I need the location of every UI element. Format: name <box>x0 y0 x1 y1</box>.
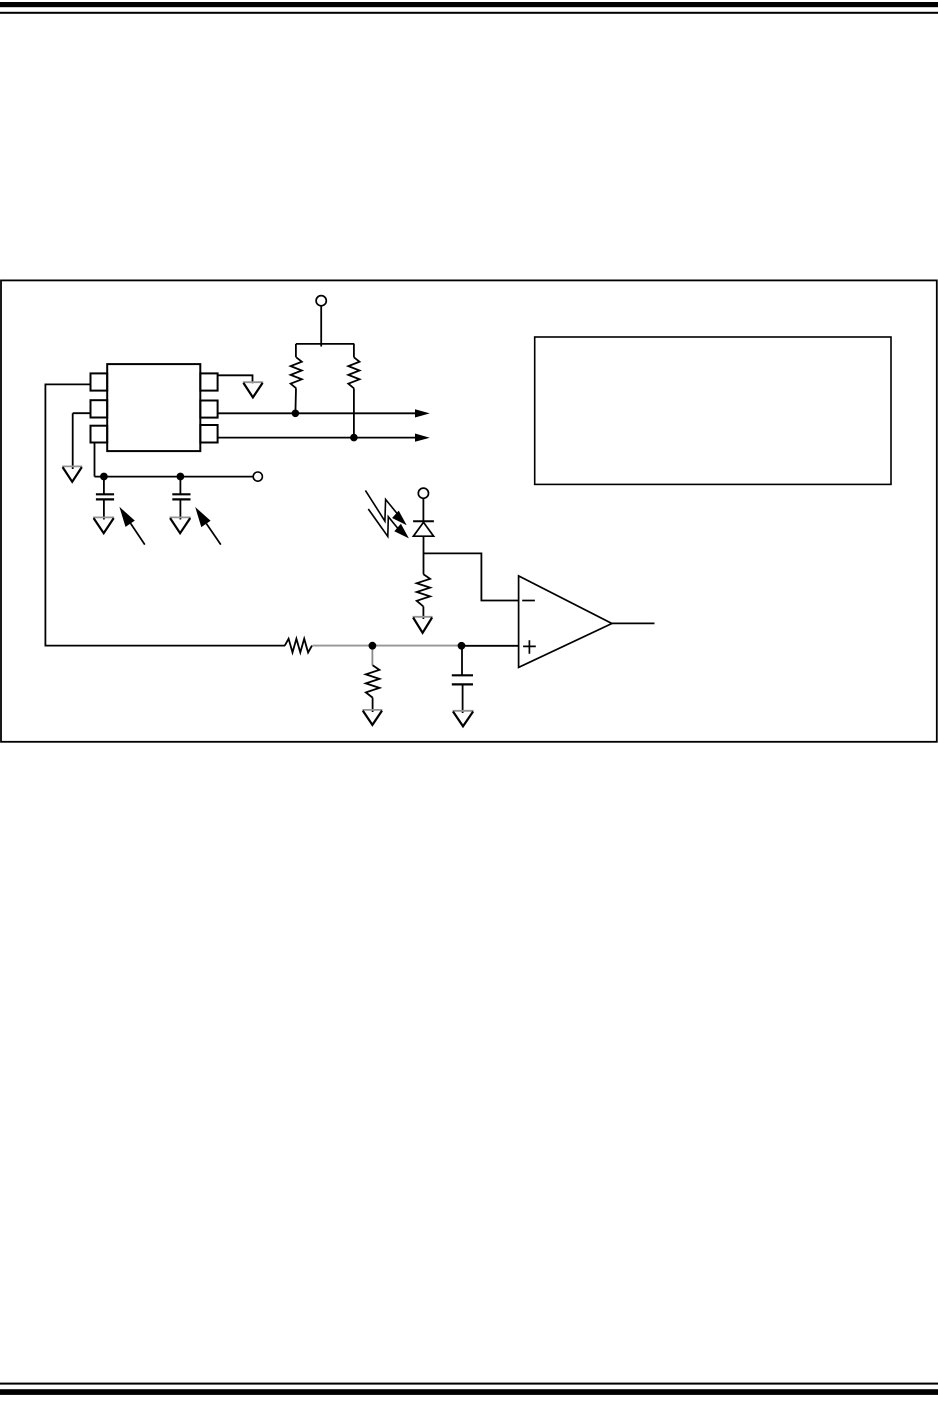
ground G4 <box>170 517 191 533</box>
node junction N1 <box>369 642 377 650</box>
wire decoupling rail <box>95 476 254 478</box>
resistor R3 (horizontal) <box>285 639 312 653</box>
annotation arrow A2 <box>195 507 221 545</box>
resistor R2 <box>348 344 359 438</box>
wire pin2 to ground <box>72 413 74 469</box>
IC U1 pin 5 (right middle) <box>200 401 217 418</box>
node junction N6 <box>350 434 358 442</box>
wire branch to op-amp minus <box>424 553 519 600</box>
ground G6 <box>362 710 382 725</box>
IC U1 pin 3 (left bottom) <box>91 426 108 443</box>
wire gray net segment <box>313 645 462 647</box>
light arrow bolt1 <box>365 490 406 525</box>
ground G3 <box>93 517 114 533</box>
annotation arrow A1 <box>119 507 144 545</box>
wire cap C3 bottom lead <box>462 684 464 713</box>
resistor R1 <box>291 344 302 413</box>
terminal T2 (open circle) <box>253 472 262 481</box>
wire cap C3 top lead <box>461 646 463 676</box>
wire resistor tops connector <box>296 343 354 345</box>
schematic frame <box>1 280 937 741</box>
resistor R4 <box>417 574 430 606</box>
resistor R5 (vertical) <box>366 665 380 697</box>
capacitor C2 <box>172 477 190 520</box>
terminal T3 (photodiode bias) <box>418 488 428 498</box>
wire left long vertical <box>44 384 46 646</box>
light arrow bolt2 <box>368 509 409 538</box>
wire bottom horizontal to R3 <box>45 645 286 647</box>
terminal T1 (open circle, top supply) <box>316 296 326 306</box>
ground G7 <box>453 711 474 727</box>
wire pin4 to ground <box>218 375 253 383</box>
wire photodiode anode down <box>423 536 425 574</box>
ground G5 <box>413 617 433 633</box>
IC U1 pin 1 (left top) <box>91 373 108 390</box>
wire T1 down <box>320 306 322 347</box>
IC U1 body <box>107 364 200 451</box>
signal line L1 with arrow <box>218 409 430 417</box>
wire op-amp output <box>612 622 655 624</box>
photodiode D1 <box>413 521 434 536</box>
bottom border thick rule <box>0 1389 938 1395</box>
capacitor C3 <box>452 675 473 684</box>
wire T3 to photodiode <box>422 498 424 522</box>
ground G2 <box>62 466 82 481</box>
ground G1 <box>243 382 263 397</box>
op-amp U2 <box>519 576 612 668</box>
wire pin1 feed <box>45 383 90 385</box>
node junction N2 <box>458 642 466 650</box>
signal line L2 with arrow <box>218 434 430 442</box>
wire pin2 feed <box>73 412 91 414</box>
top border thin rule <box>0 12 938 14</box>
wire to op-amp plus input <box>462 645 519 647</box>
node junction N5 <box>292 410 300 418</box>
node junction N4 <box>177 473 185 481</box>
top border thick rule <box>0 2 938 7</box>
wire R5 to ground <box>372 698 374 712</box>
IC U1 pin 2 (left middle) <box>91 400 108 417</box>
wire pin3 down <box>94 443 96 477</box>
wire gray stub below node <box>371 646 373 666</box>
bottom border thin rule <box>0 1383 938 1385</box>
IC U1 pin 4 (right top) <box>200 373 217 390</box>
note box <box>535 337 891 484</box>
node junction N3 <box>100 473 108 481</box>
wire R4 to ground <box>422 607 424 620</box>
capacitor C1 <box>96 477 114 520</box>
IC U1 pin 6 (right bottom) <box>200 425 217 443</box>
